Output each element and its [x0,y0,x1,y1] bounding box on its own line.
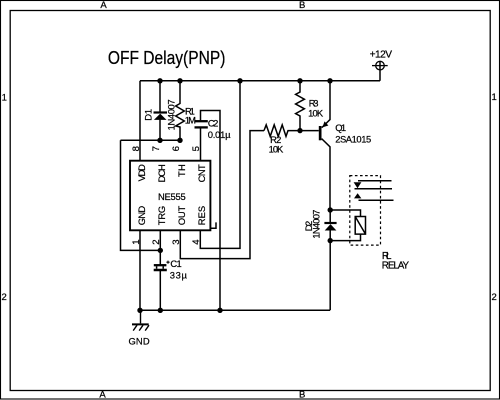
wire: pin3 OUT loop to R2 [180,131,264,259]
svg-text:OUT: OUT [176,206,187,226]
rotated component labels [142,99,321,238]
+12V terminal circle [376,61,385,70]
svg-text:B: B [299,0,305,11]
svg-text:NE555: NE555 [158,191,186,202]
node Q1 emitter rail junction [327,78,332,83]
wire: pin8 column [139,81,141,161]
wire: top +12V rail [140,80,380,82]
svg-text:10K: 10K [269,143,284,154]
node ground-pin1 junction [137,308,142,313]
wire: pin4 to +12V [200,81,240,249]
capacitor C1 symbol [154,264,167,266]
+12V supply wire [379,61,381,81]
relay coil top link [330,210,360,217]
diode D1 leads [159,81,161,141]
relay contact middle line [355,188,393,190]
svg-text:5: 5 [191,146,202,151]
IC pin names [136,164,207,225]
relay contact arrow down [354,182,362,188]
resistor R1 [176,81,185,141]
wire: ground rail [140,309,330,311]
svg-text:0.01µ: 0.01µ [208,129,231,140]
relay contact arrow up [354,193,361,198]
node pin6 junction [177,138,182,143]
svg-text:C2: C2 [208,117,219,128]
wire: node pins 6-7 horizontal [121,139,181,141]
svg-text:A: A [100,0,107,11]
transistor Q1 emitter [322,81,330,128]
node D2 anode junction [328,238,333,243]
diode D2 symbol [324,222,336,224]
node R3 rail junction [297,78,302,83]
svg-text:1N4007: 1N4007 [166,99,177,130]
svg-text:1N4007: 1N4007 [311,210,322,239]
relay RL dashed box [350,176,381,246]
resistor R2 [264,125,319,137]
node TRG-C1 junction [158,248,163,253]
node R1 top junction [177,78,182,83]
svg-text:TH: TH [176,164,187,177]
svg-text:+12V: +12V [370,49,393,60]
svg-text:7: 7 [151,146,162,151]
relay contact top line [358,180,392,182]
node ground-C2 junction [217,308,222,313]
ground symbol [140,310,142,323]
svg-text:VDD: VDD [136,164,147,181]
svg-text:GND: GND [136,206,147,226]
svg-text:3: 3 [171,239,182,244]
IC NE555 outline notch [211,222,216,228]
svg-text:GND: GND [129,335,150,346]
svg-text:8: 8 [131,146,142,151]
IC pin numbers [131,146,202,245]
wire: pin1 column [139,231,141,311]
transistor Q1 base bar [319,126,322,140]
node D2 cathode junction [328,207,333,212]
relay coil bottom link [330,234,360,241]
transistor Q1 emitter arrow [322,121,328,127]
wire: C2/pin5 branch to ground [201,111,221,311]
svg-text:1M: 1M [185,115,196,126]
svg-text:1: 1 [2,93,7,104]
resistor R3 [296,81,305,131]
transistor Q1 collector [322,139,330,210]
wire: left loop vertical to TRG [121,140,161,250]
capacitor C2 symbol [195,120,208,122]
svg-text:TRG: TRG [156,206,167,225]
IC U1 NE555 body [130,161,210,231]
svg-text:1: 1 [492,92,497,103]
diode D1 symbol [154,111,168,113]
svg-text:4: 4 [191,239,202,245]
relay coil box [355,217,365,235]
relay contact bottom line [359,199,394,201]
node Q1 base junction [297,128,302,133]
node ground-C1 junction [158,308,163,313]
svg-text:A: A [99,390,106,400]
node pin7 junction [157,138,162,143]
svg-text:Q1: Q1 [335,122,346,133]
svg-text:B: B [299,390,305,400]
wire: pin2 column to C1 [159,231,161,311]
svg-text:2: 2 [151,239,162,244]
svg-text:RES: RES [196,206,207,225]
svg-text:10K: 10K [308,108,324,119]
svg-text:DCH: DCH [156,164,167,182]
svg-text:C1: C1 [170,258,181,269]
svg-text:D1: D1 [142,109,153,121]
node D1 top junction [157,78,162,83]
node RES rail junction [237,78,242,83]
svg-text:2SA1015: 2SA1015 [335,133,371,144]
svg-text:6: 6 [171,146,182,151]
svg-text:CNT: CNT [196,164,207,182]
svg-text:33µ: 33µ [170,270,188,281]
diode D2 leads [329,210,331,310]
svg-text:2: 2 [1,292,6,303]
svg-text:2: 2 [492,292,497,303]
svg-text:RELAY: RELAY [382,261,410,272]
svg-text:OFF Delay(PNP): OFF Delay(PNP) [108,48,225,68]
svg-text:1: 1 [131,239,142,244]
